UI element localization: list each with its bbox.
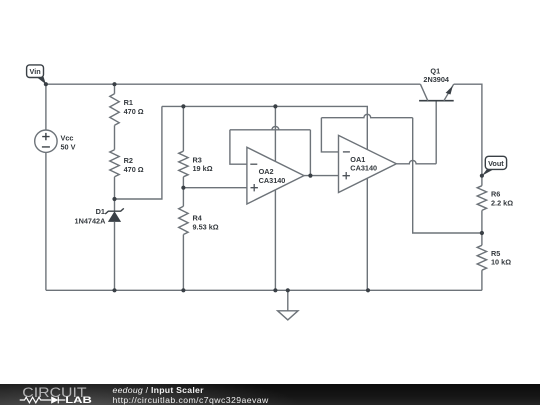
svg-text:50 V: 50 V bbox=[61, 142, 76, 151]
svg-text:2N3904: 2N3904 bbox=[423, 75, 450, 84]
CircuitLab logo bbox=[0, 384, 100, 405]
svg-text:R6: R6 bbox=[491, 190, 500, 199]
footer bar bbox=[0, 384, 540, 405]
node R1 top bbox=[112, 82, 116, 86]
resistor R6 bbox=[477, 176, 513, 233]
wire R3-R4 node to OA2 non-inverting input bbox=[183, 187, 247, 189]
node D1 bottom bbox=[112, 288, 116, 292]
resistor R3 bbox=[179, 106, 213, 187]
node R6-R5 junction bbox=[480, 231, 484, 235]
node OA2 V- tap bbox=[273, 288, 277, 292]
wire OA2 feedback horizontal with hop bbox=[230, 126, 311, 129]
svg-text:Vcc: Vcc bbox=[61, 134, 74, 143]
wire D1 node up to V+ rail bbox=[115, 106, 162, 199]
wire up to Q1 base bbox=[435, 101, 437, 164]
svg-text:470 Ω: 470 Ω bbox=[124, 107, 144, 116]
wire OA2 feedback to inverting input bbox=[230, 130, 247, 164]
svg-text:Vin: Vin bbox=[29, 67, 40, 76]
resistor R1 bbox=[110, 84, 144, 150]
node flag Vout bbox=[482, 156, 507, 175]
wire OA1 feedback down to R6-R5 divider node bbox=[413, 118, 482, 233]
svg-text:D1: D1 bbox=[96, 207, 105, 216]
diode D1 1N4742A zener bbox=[75, 199, 124, 290]
resistor R5 bbox=[477, 233, 511, 290]
node OA2 output junction bbox=[308, 174, 312, 178]
svg-text:2.2 kΩ: 2.2 kΩ bbox=[491, 199, 513, 208]
voltage source Vcc 50V bbox=[35, 130, 76, 152]
wire bottom ground rail bbox=[46, 289, 482, 291]
wire OA1 output with hop to Q1 base column bbox=[396, 160, 436, 163]
node OA1 V- tap bbox=[366, 288, 370, 292]
svg-text:R1: R1 bbox=[124, 98, 133, 107]
wire Vcc bottom to ground rail bbox=[45, 152, 47, 290]
wire Q1 emitter to Vout node bbox=[454, 84, 482, 176]
svg-text:9.53 kΩ: 9.53 kΩ bbox=[193, 223, 219, 232]
svg-text:19 kΩ: 19 kΩ bbox=[193, 164, 213, 173]
svg-text:R2: R2 bbox=[124, 156, 133, 165]
svg-text:1N4742A: 1N4742A bbox=[75, 216, 107, 225]
svg-text:LAB: LAB bbox=[65, 395, 92, 405]
op-amp OA1 CA3140 bbox=[339, 135, 397, 192]
svg-text:OA2: OA2 bbox=[259, 167, 274, 176]
transistor Q1 2N3904 NPN bbox=[419, 66, 454, 100]
ground bbox=[278, 290, 298, 320]
svg-text:R3: R3 bbox=[193, 155, 202, 164]
wire OA1 V- supply to ground rail bbox=[366, 178, 368, 290]
node R3-R4 junction bbox=[181, 186, 185, 190]
node D1 anode junction bbox=[112, 197, 116, 201]
svg-text:470 Ω: 470 Ω bbox=[124, 165, 144, 174]
wire V+ rail to op-amp supplies bbox=[162, 106, 367, 149]
wire OA1 inverting input to feedback bbox=[321, 118, 338, 152]
svg-text:CA3140: CA3140 bbox=[259, 176, 286, 185]
wire OA1 feedback horizontal with hop bbox=[321, 114, 412, 117]
node R3 top bbox=[181, 104, 185, 108]
svg-text:10 kΩ: 10 kΩ bbox=[491, 258, 511, 267]
wire Vin node to Vcc top bbox=[45, 84, 47, 130]
svg-text:CA3140: CA3140 bbox=[350, 164, 377, 173]
svg-text:R4: R4 bbox=[193, 213, 203, 222]
wire OA2 V- supply to ground rail bbox=[274, 190, 276, 290]
node Vout bbox=[480, 174, 484, 178]
node R4 bottom bbox=[181, 288, 185, 292]
op-amp OA2 CA3140 bbox=[247, 106, 304, 204]
node Vin bbox=[44, 82, 48, 86]
node flag Vin bbox=[27, 65, 46, 84]
svg-text:OA1: OA1 bbox=[350, 155, 365, 164]
wire top rail Vin to Q1 collector bbox=[46, 83, 421, 85]
resistor R2 bbox=[110, 150, 144, 199]
wire OA2 output to OA1 non-inverting input bbox=[304, 175, 339, 177]
node ground tap bbox=[286, 288, 290, 292]
node OA2 V+ tap bbox=[273, 104, 277, 108]
wire OA2 output to feedback top bbox=[309, 130, 311, 176]
svg-text:Vout: Vout bbox=[488, 159, 504, 168]
resistor R4 bbox=[179, 188, 219, 291]
